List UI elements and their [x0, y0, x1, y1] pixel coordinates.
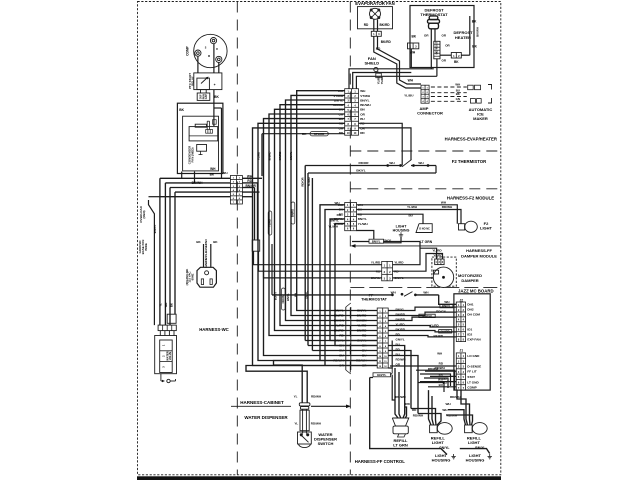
svg-text:HARNESS-FF CONTROL: HARNESS-FF CONTROL [355, 459, 406, 464]
svg-text:RD/OR: RD/OR [359, 161, 370, 165]
svg-text:BK/RD: BK/RD [379, 23, 390, 27]
svg-text:ID2: ID2 [467, 332, 472, 336]
svg-text:HARNESS-BASEPAN: HARNESS-BASEPAN [204, 239, 208, 267]
svg-text:YL/WH: YL/WH [407, 205, 418, 209]
svg-text:BK: BK [302, 132, 307, 136]
svg-text:BN/YL: BN/YL [330, 218, 339, 222]
svg-text:YL/RD: YL/RD [268, 219, 272, 227]
svg-text:BN/RD: BN/RD [334, 314, 345, 318]
svg-text:HOUSING: HOUSING [466, 457, 485, 462]
svg-text:EVAPORATOR FAN: EVAPORATOR FAN [355, 1, 394, 6]
svg-text:YL: YL [294, 395, 298, 399]
svg-text:VALVE: VALVE [168, 352, 172, 361]
svg-text:GN/YL: GN/YL [377, 373, 387, 377]
svg-text:RD: RD [362, 334, 367, 338]
svg-text:+: + [214, 83, 216, 87]
svg-text:COMP: COMP [467, 386, 476, 390]
svg-text:LO GND: LO GND [467, 354, 480, 358]
svg-text:RD: RD [360, 131, 365, 135]
svg-text:HEATER: HEATER [455, 35, 471, 40]
svg-text:BU/GY: BU/GY [274, 292, 278, 300]
svg-text:BK/WH: BK/WH [476, 27, 480, 37]
svg-text:YL/RD: YL/RD [432, 248, 442, 252]
svg-text:THERMOSTAT: THERMOSTAT [361, 298, 387, 302]
svg-text:BN/YL: BN/YL [153, 224, 157, 233]
svg-text:RD: RD [339, 131, 344, 135]
svg-text:LT GRN: LT GRN [420, 240, 433, 244]
svg-text:GN/YL: GN/YL [439, 446, 449, 450]
svg-text:GN: GN [456, 97, 460, 101]
svg-text:WH: WH [455, 83, 460, 87]
svg-text:BU: BU [362, 354, 367, 358]
svg-text:YL/RD: YL/RD [257, 152, 261, 160]
svg-text:WH: WH [389, 161, 395, 165]
svg-text:YL/RD: YL/RD [371, 261, 381, 265]
svg-text:DAMPER MODULE: DAMPER MODULE [461, 254, 497, 259]
svg-text:JAZZ MC BOARD: JAZZ MC BOARD [458, 289, 494, 294]
svg-text:HOUSING: HOUSING [432, 457, 451, 462]
svg-text:BN/RD: BN/RD [268, 152, 272, 161]
svg-text:SPLICE: SPLICE [314, 132, 325, 136]
svg-text:BN/RD: BN/RD [291, 209, 295, 217]
svg-text:WH: WH [441, 200, 447, 204]
svg-text:BN/RD: BN/RD [357, 314, 368, 318]
svg-text:HARNESS-CABINET: HARNESS-CABINET [240, 400, 284, 405]
svg-text:YL/BU: YL/BU [404, 94, 414, 98]
svg-text:RD/WH: RD/WH [395, 395, 406, 399]
svg-text:D-SENSE: D-SENSE [467, 364, 481, 368]
svg-text:RD: RD [339, 334, 344, 338]
svg-text:YL/WH: YL/WH [328, 224, 338, 228]
svg-text:DAMPER: DAMPER [461, 278, 478, 283]
svg-text:DH1: DH1 [467, 303, 473, 307]
svg-text:VT/WH: VT/WH [360, 94, 371, 98]
svg-text:BK: BK [454, 60, 459, 64]
svg-text:WH: WH [418, 161, 424, 165]
svg-text:BN/YL: BN/YL [357, 309, 366, 313]
svg-text:COMP: COMP [186, 45, 190, 55]
svg-text:CAP: CAP [205, 94, 208, 99]
svg-text:BK/WH: BK/WH [360, 103, 371, 107]
svg-text:BU: BU [339, 354, 344, 358]
svg-text:WH: WH [423, 290, 429, 294]
svg-text:YL/RD: YL/RD [433, 254, 443, 258]
svg-text:J1: J1 [460, 349, 464, 353]
svg-text:HOUSING: HOUSING [393, 229, 410, 233]
svg-text:YL/RD: YL/RD [335, 324, 345, 328]
svg-text:BN/RD: BN/RD [357, 329, 368, 333]
svg-text:LIGHT: LIGHT [480, 226, 493, 231]
svg-text:BK: BK [170, 303, 174, 307]
svg-text:BK: BK [210, 173, 215, 177]
svg-text:BN: BN [360, 108, 365, 112]
svg-text:BU/GN: BU/GN [334, 319, 345, 323]
svg-text:RD/WH: RD/WH [435, 366, 445, 370]
svg-text:STAT: STAT [467, 375, 475, 379]
svg-text:FAN (MED): FAN (MED) [190, 147, 194, 162]
svg-text:WH: WH [446, 402, 452, 406]
svg-text:BN/YL: BN/YL [335, 309, 344, 313]
svg-text:MAKER: MAKER [473, 116, 488, 121]
svg-text:BU/GN: BU/GN [357, 319, 368, 323]
svg-text:BN/YL: BN/YL [360, 98, 369, 102]
svg-text:BK/YL: BK/YL [356, 169, 365, 173]
svg-text:RD: RD [364, 23, 369, 27]
svg-text:WH: WH [223, 171, 228, 175]
svg-text:SWITCH: SWITCH [318, 441, 334, 446]
svg-text:WH: WH [437, 352, 442, 356]
svg-text:R: R [216, 48, 218, 51]
svg-text:GN/YL: GN/YL [396, 337, 405, 341]
svg-text:LT GRN: LT GRN [393, 442, 408, 447]
svg-text:60HZ: 60HZ [190, 273, 194, 280]
svg-text:BN/YL: BN/YL [286, 293, 290, 301]
svg-text:WH: WH [335, 201, 340, 205]
svg-text:BK: BK [411, 34, 416, 38]
svg-text:BN/YL: BN/YL [475, 446, 485, 450]
svg-text:LIGHT: LIGHT [432, 440, 445, 445]
svg-text:GN/YL: GN/YL [289, 151, 293, 160]
svg-text:DEFROST: DEFROST [434, 41, 438, 54]
svg-text:OR/WH: OR/WH [281, 294, 285, 303]
svg-text:RELAY: RELAY [190, 76, 194, 86]
svg-text:YL/RD: YL/RD [380, 76, 384, 84]
svg-text:RD/WH: RD/WH [311, 422, 321, 426]
svg-text:YL: YL [294, 422, 298, 426]
svg-text:O NO NC: O NO NC [419, 227, 430, 230]
svg-text:DH2: DH2 [467, 308, 473, 312]
svg-text:LT GND: LT GND [467, 380, 479, 384]
svg-text:CONNECTOR: CONNECTOR [417, 111, 443, 116]
svg-text:BN/RD: BN/RD [334, 329, 345, 333]
svg-text:M: M [208, 55, 210, 58]
svg-text:BN/YL: BN/YL [372, 240, 381, 244]
svg-text:BK: BK [214, 95, 219, 99]
svg-text:WH: WH [164, 303, 168, 308]
svg-text:BK: BK [472, 19, 477, 23]
svg-text:WH: WH [360, 89, 366, 93]
svg-text:OR/RD: OR/RD [278, 151, 282, 160]
svg-text:WH: WH [391, 290, 397, 294]
svg-text:RD: RD [405, 402, 410, 406]
svg-text:BU: BU [360, 117, 365, 121]
svg-text:ID1: ID1 [467, 327, 472, 331]
svg-text:BK: BK [472, 44, 477, 48]
svg-text:WATER DISPENSER: WATER DISPENSER [244, 415, 288, 420]
svg-text:BK: BK [179, 108, 184, 112]
svg-text:(RED): (RED) [142, 210, 146, 218]
svg-text:RD/WH: RD/WH [311, 395, 321, 399]
svg-text:BN/YL: BN/YL [358, 217, 367, 221]
svg-text:WH: WH [210, 167, 216, 171]
svg-text:BK/RD: BK/RD [381, 40, 392, 44]
svg-text:YL/WH: YL/WH [307, 177, 311, 186]
svg-text:RD/OR: RD/OR [300, 177, 304, 186]
svg-text:DH COM: DH COM [467, 313, 480, 317]
svg-text:YL: YL [159, 303, 163, 307]
svg-text:LIGHT: LIGHT [468, 440, 481, 445]
svg-text:YL/RD: YL/RD [357, 324, 367, 328]
svg-text:WIRE: WIRE [144, 243, 148, 251]
svg-text:SHIELD: SHIELD [364, 60, 379, 65]
svg-text:F2 THERMISTOR: F2 THERMISTOR [452, 159, 487, 164]
svg-text:FF LIT: FF LIT [467, 370, 476, 374]
svg-text:WH: WH [408, 79, 414, 83]
svg-text:HARNESS-F2 MODULE: HARNESS-F2 MODULE [447, 195, 494, 200]
svg-text:HARNESS-WC: HARNESS-WC [199, 327, 229, 332]
svg-text:HARNESS-EVAP/HEATER: HARNESS-EVAP/HEATER [445, 137, 498, 142]
svg-text:RD/WH: RD/WH [450, 395, 461, 399]
svg-text:RD/WH: RD/WH [442, 205, 453, 209]
svg-text:BK/WH: BK/WH [192, 181, 203, 185]
svg-text:YL/RD: YL/RD [394, 261, 404, 265]
svg-text:WH: WH [442, 408, 448, 412]
svg-text:OR: OR [360, 112, 365, 116]
svg-text:BU: BU [443, 381, 447, 385]
svg-text:HARNESS-FF: HARNESS-FF [466, 248, 492, 253]
svg-text:YL/WH: YL/WH [358, 222, 369, 226]
svg-text:EXP FAN: EXP FAN [467, 337, 481, 341]
